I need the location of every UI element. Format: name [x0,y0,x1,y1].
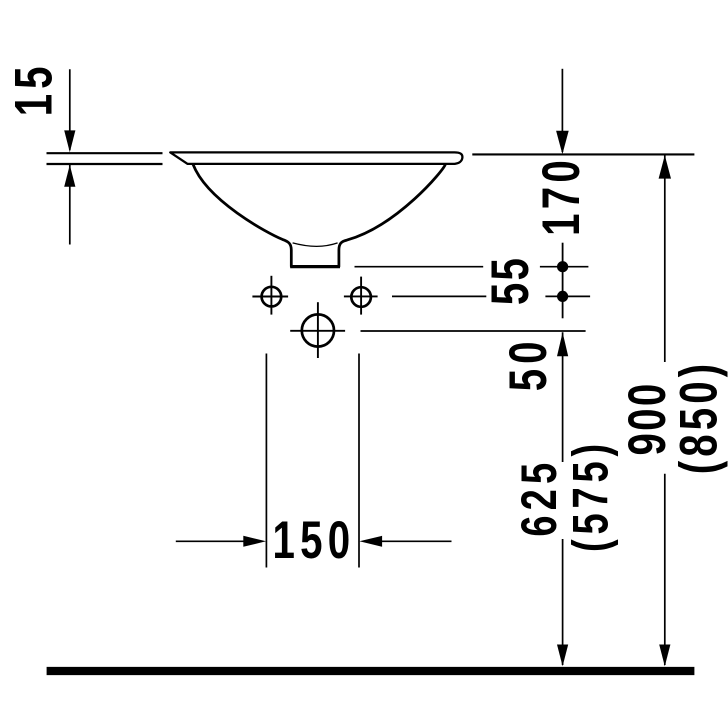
svg-text:(850): (850) [668,360,728,475]
bowl interior thin arc [293,243,338,246]
dim 15: up arrow [64,165,75,187]
svg-text:150: 150 [273,510,356,570]
washbasin bowl outline [193,164,445,266]
dim 150 left extension line [265,354,267,568]
dim 150 left arrowhead [243,536,266,547]
washbasin rim [170,152,462,164]
line at drain level (left segment) [355,266,484,268]
countertop line (right) [472,153,694,155]
dim 55 crosshair vertical [562,243,564,319]
svg-text:15: 15 [3,61,63,116]
dim 50: vertical line upper part [562,332,564,462]
countertop bottom line (left) [47,163,163,165]
dim 55 dot lower [557,291,568,302]
faucet hole left circle [262,287,282,307]
dim 625: down arrow at floor [557,645,568,667]
dim 15: down arrow [64,130,75,152]
dim 150 left arrow line [176,540,245,542]
faucet hole left crosshair [252,296,288,298]
drain stub bottom (thicker) [290,265,340,268]
svg-text:50: 50 [498,336,558,391]
dim 15: lower vertical line [69,165,71,245]
dim 900: down arrow at floor [659,645,670,667]
dim 900: up arrow at countertop [659,155,671,178]
svg-text:(575): (575) [564,439,619,552]
dim 170: down arrow [556,131,569,154]
faucet hole right circle [351,287,371,307]
mixer hole crosshair [290,330,345,332]
line at faucet level (right segment) [545,295,590,297]
dim 50: up arrow [557,332,568,356]
svg-text:55: 55 [479,256,539,305]
line at mixer level [361,330,586,332]
dim 900 vertical line lower part [664,474,666,665]
svg-text:625: 625 [512,458,567,537]
dim 55 dot upper [557,261,568,272]
dim 625 vertical line lower part [562,539,564,665]
dim 15: upper vertical line [69,69,71,150]
mixer hole large circle [302,314,334,346]
countertop top line (left) [47,152,163,154]
dim 150 right arrowhead [359,536,382,547]
dim 900 vertical line upper part [664,155,666,362]
line at faucet level (left segment) [392,295,486,297]
dim 150 right extension line [358,354,360,568]
faucet hole right crosshair [344,295,378,297]
svg-text:170: 170 [531,156,591,236]
floor line [47,667,695,675]
dim 150 right arrow line [380,540,452,542]
line at drain level (right segment) [540,266,589,268]
dim 170: vertical line from top [561,69,563,152]
